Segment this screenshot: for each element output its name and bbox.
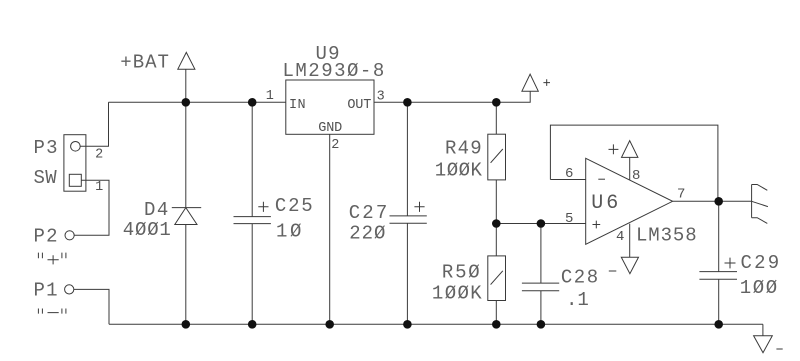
svg-text:U6: U6 [591,192,621,215]
svg-text:SW: SW [34,167,58,189]
svg-text:C29: C29 [741,252,782,274]
svg-text:1ØØK: 1ØØK [435,160,483,182]
svg-text:1Ø: 1Ø [276,220,304,242]
svg-text:8: 8 [632,168,640,184]
svg-text:+BAT: +BAT [120,52,170,74]
svg-text:1ØØ: 1ØØ [740,277,779,299]
svg-text:R5Ø: R5Ø [442,261,482,283]
svg-text:4ØØ1: 4ØØ1 [123,219,172,241]
svg-text:C28: C28 [561,267,600,289]
svg-text:LM358: LM358 [636,224,698,246]
svg-text:C27: C27 [349,202,390,224]
svg-text:2: 2 [95,148,103,163]
svg-text:1: 1 [266,89,274,104]
svg-text:1ØØK: 1ØØK [432,283,483,305]
svg-text:R49: R49 [445,138,483,160]
svg-text:4: 4 [616,229,624,245]
svg-text:LM293Ø-8: LM293Ø-8 [283,60,386,82]
svg-text:GND: GND [318,121,342,136]
svg-text:3: 3 [377,90,385,105]
svg-text:P2: P2 [34,225,59,247]
svg-text:6: 6 [565,166,573,182]
svg-text:P1: P1 [34,280,59,302]
svg-text:.1: .1 [566,289,589,311]
svg-text:5: 5 [565,211,573,227]
svg-text:22Ø: 22Ø [349,223,386,245]
svg-text:OUT: OUT [347,98,371,113]
svg-text:IN: IN [289,98,306,113]
svg-text:C25: C25 [275,195,315,217]
svg-text:7: 7 [677,186,685,202]
svg-text:P3: P3 [34,137,59,159]
svg-text:2: 2 [331,138,339,153]
svg-text:1: 1 [95,180,103,195]
